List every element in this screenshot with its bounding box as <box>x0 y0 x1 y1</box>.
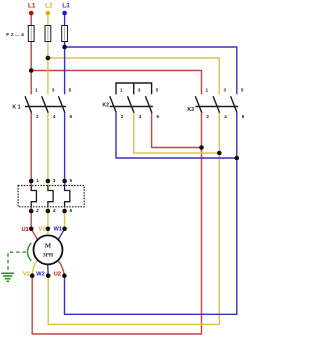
svg-text:1: 1 <box>36 178 39 183</box>
svg-text:4: 4 <box>139 114 142 119</box>
svg-text:6: 6 <box>157 114 160 119</box>
svg-text:U1: U1 <box>22 227 29 233</box>
svg-text:U2: U2 <box>54 272 61 278</box>
svg-text:3PH: 3PH <box>43 253 54 259</box>
svg-text:W2: W2 <box>36 272 45 278</box>
svg-text:2: 2 <box>121 114 124 119</box>
svg-text:3: 3 <box>52 87 55 92</box>
svg-text:4: 4 <box>53 208 56 213</box>
svg-text:L1: L1 <box>28 2 36 9</box>
svg-text:4: 4 <box>224 114 227 119</box>
svg-text:6: 6 <box>70 114 73 119</box>
svg-text:4: 4 <box>53 114 56 119</box>
svg-text:F 2 ... 4: F 2 ... 4 <box>6 32 24 38</box>
svg-text:2: 2 <box>36 114 39 119</box>
svg-text:1: 1 <box>120 87 123 92</box>
svg-text:5: 5 <box>241 87 244 92</box>
svg-text:2: 2 <box>206 114 209 119</box>
svg-text:K 1: K 1 <box>12 105 20 111</box>
svg-text:L2: L2 <box>45 2 53 9</box>
svg-text:V2: V2 <box>23 272 30 278</box>
svg-text:1: 1 <box>206 87 209 92</box>
svg-text:3: 3 <box>53 178 56 183</box>
svg-text:1: 1 <box>35 87 38 92</box>
svg-text:K3: K3 <box>187 107 194 113</box>
svg-text:M: M <box>45 243 52 250</box>
svg-text:3: 3 <box>223 87 226 92</box>
svg-text:5: 5 <box>69 87 72 92</box>
svg-text:K2: K2 <box>102 102 109 108</box>
svg-text:6: 6 <box>70 208 73 213</box>
svg-text:5: 5 <box>70 178 73 183</box>
svg-text:W1: W1 <box>53 227 62 233</box>
svg-text:L3: L3 <box>62 2 70 9</box>
svg-text:2: 2 <box>36 208 39 213</box>
svg-text:6: 6 <box>242 114 245 119</box>
svg-text:3: 3 <box>138 87 141 92</box>
svg-text:V1: V1 <box>39 227 46 233</box>
svg-text:5: 5 <box>156 87 159 92</box>
